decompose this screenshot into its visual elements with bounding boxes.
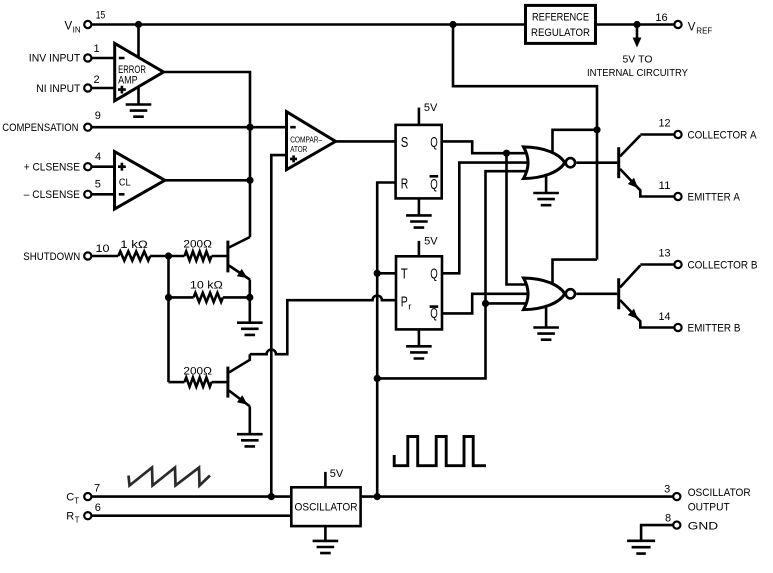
pin 11 terminal emitter A bbox=[674, 193, 681, 200]
junction shutdown node bbox=[165, 252, 172, 259]
svg-text:INV INPUT: INV INPUT bbox=[29, 53, 81, 65]
pin 6 terminal RT bbox=[84, 512, 91, 519]
wire VIN down to error amp bbox=[137, 25, 140, 58]
svg-text:COLLECTOR B: COLLECTOR B bbox=[688, 259, 758, 271]
svg-text:EMITTER A: EMITTER A bbox=[688, 191, 741, 203]
junction CL output bbox=[246, 177, 253, 184]
pin 10 terminal SHUTDOWN bbox=[84, 252, 91, 259]
wire NOR gate A output to transistor base bbox=[576, 161, 617, 164]
svg-text:13: 13 bbox=[659, 248, 671, 260]
svg-text:V: V bbox=[688, 21, 696, 33]
wire pin2 to error amp bbox=[91, 87, 115, 90]
svg-text:11: 11 bbox=[659, 180, 671, 192]
pin 7 terminal CT bbox=[84, 493, 91, 500]
wire regulator output to VREF bbox=[596, 23, 675, 26]
pin 8 terminal GND bbox=[673, 522, 680, 529]
svg-text:3: 3 bbox=[664, 483, 670, 495]
svg-text:OUTPUT: OUTPUT bbox=[688, 501, 730, 513]
svg-text:5V: 5V bbox=[330, 468, 344, 480]
wire CL output bbox=[165, 179, 250, 182]
transistor output B bbox=[619, 265, 675, 328]
svg-text:C: C bbox=[66, 492, 74, 504]
svg-text:OSCILLATOR: OSCILLATOR bbox=[688, 487, 751, 499]
svg-text:5V TO: 5V TO bbox=[623, 53, 653, 65]
pin 13 terminal collector B bbox=[674, 261, 681, 268]
transistor output A bbox=[619, 135, 675, 197]
wire pin1 to error amp bbox=[91, 57, 115, 60]
wire R input from oscillator bbox=[377, 183, 395, 497]
svg-text:Q: Q bbox=[430, 265, 438, 282]
junction Q to gate B branch bbox=[503, 150, 510, 157]
svg-text:8: 8 bbox=[665, 512, 671, 524]
wire T-FF Qbar to NOR gate B bbox=[442, 294, 529, 314]
op-amp error amp bbox=[115, 43, 164, 100]
resistor 10 kOhm bbox=[169, 296, 194, 299]
wire branch to NOR gate A top bbox=[553, 130, 598, 153]
op-amp CL current limit amp bbox=[115, 152, 165, 209]
power 5V T flip-flop bbox=[419, 235, 438, 256]
resistor 200 Ohm lower bbox=[169, 381, 185, 384]
svg-text:12: 12 bbox=[659, 118, 671, 130]
svg-text:COLLECTOR A: COLLECTOR A bbox=[688, 129, 758, 141]
pin 5 terminal -CL SENSE bbox=[84, 191, 91, 198]
svg-text:Q: Q bbox=[430, 134, 438, 151]
resistor 200 Ohm upper bbox=[185, 251, 212, 260]
wire oscillator blanking to both gates bbox=[377, 171, 527, 378]
pin 9 terminal COMPENSATION bbox=[84, 124, 91, 131]
pin 14 terminal emitter B bbox=[674, 324, 681, 331]
svg-text:7: 7 bbox=[94, 483, 100, 495]
ground Q1 emitter bbox=[237, 323, 263, 335]
wire error amp output bbox=[164, 72, 251, 237]
junction oscillator output bbox=[374, 493, 381, 500]
wire comparator output to S input bbox=[336, 140, 396, 143]
svg-text:9: 9 bbox=[95, 110, 101, 122]
flip-flop toggle T bbox=[396, 256, 442, 329]
label VIN bbox=[65, 21, 81, 35]
resistor 1 kOhm bbox=[91, 255, 118, 258]
junction error amp output / compensation bbox=[246, 124, 253, 131]
junction VIN to output gates branch bbox=[449, 21, 456, 28]
svg-text:REGULATOR: REGULATOR bbox=[531, 27, 590, 39]
reference regulator block bbox=[526, 5, 596, 43]
junction T input from oscillator bbox=[374, 270, 381, 277]
svg-text:5: 5 bbox=[95, 179, 101, 191]
wire S-R Q branch down to NOR gate B bbox=[507, 153, 528, 284]
waveform sawtooth ramp bbox=[129, 468, 211, 486]
svg-text:– CLSENSE: – CLSENSE bbox=[24, 189, 80, 201]
svg-text:V: V bbox=[65, 21, 73, 33]
wire comparator plus input from oscillator ramp bbox=[271, 155, 286, 497]
wire blanking into gate B bbox=[486, 302, 528, 305]
svg-text:15: 15 bbox=[96, 10, 106, 22]
power 5V S-R flip-flop bbox=[419, 102, 438, 125]
svg-text:6: 6 bbox=[95, 502, 101, 514]
svg-text:GND: GND bbox=[688, 521, 719, 533]
svg-text:4: 4 bbox=[95, 151, 101, 163]
svg-text:10 kΩ: 10 kΩ bbox=[190, 280, 223, 292]
svg-text:1 kΩ: 1 kΩ bbox=[120, 239, 148, 251]
wire shutdown node down bbox=[167, 256, 170, 382]
svg-text:1: 1 bbox=[93, 43, 99, 55]
op-amp comparator bbox=[287, 112, 336, 170]
junction 10k tap bbox=[165, 294, 172, 301]
svg-text:AMP: AMP bbox=[118, 74, 138, 86]
pin 12 terminal collector A bbox=[674, 131, 681, 138]
wire Q output to NOR gate A bbox=[442, 141, 527, 153]
ground S-R flip-flop bbox=[406, 198, 432, 227]
waveform square wave bbox=[394, 437, 486, 466]
wire Q1 emitter to ground bbox=[249, 280, 252, 323]
NOR gate A bbox=[524, 147, 576, 179]
svg-text:R: R bbox=[66, 511, 74, 523]
svg-text:T: T bbox=[74, 496, 79, 505]
svg-text:REF: REF bbox=[696, 27, 712, 36]
wire RT to oscillator bbox=[91, 514, 291, 517]
wire Q2 emitter to ground bbox=[249, 406, 252, 434]
pin 3 terminal OSCILLATOR OUTPUT bbox=[673, 493, 680, 500]
ground NOR gate B bbox=[533, 306, 559, 340]
wire NOR gate B output to transistor base bbox=[576, 292, 617, 295]
svg-text:INTERNAL CIRCUITRY: INTERNAL CIRCUITRY bbox=[587, 67, 688, 79]
transistor Q2 bbox=[228, 354, 250, 406]
power 5V oscillator bbox=[325, 468, 344, 487]
svg-text:+ CLSENSE: + CLSENSE bbox=[24, 162, 80, 174]
wire T-FF Q up to NOR gate A bbox=[442, 163, 529, 274]
junction blanking to gate B bbox=[482, 300, 489, 307]
svg-text:ATOR: ATOR bbox=[290, 145, 307, 154]
svg-text:R: R bbox=[401, 176, 409, 193]
svg-text:T: T bbox=[401, 265, 408, 282]
junction Q1 emitter / 10k bbox=[246, 294, 253, 301]
ground NOR gate A bbox=[533, 175, 559, 206]
junction gates supply branch A bbox=[593, 126, 600, 133]
ground T flip-flop bbox=[406, 329, 432, 358]
svg-text:OSCILLATOR: OSCILLATOR bbox=[295, 501, 358, 513]
pin 15 terminal bbox=[84, 21, 91, 28]
label 5V TO INTERNAL CIRCUITRY bbox=[587, 53, 688, 79]
pin 1 terminal INV INPUT bbox=[84, 54, 91, 61]
svg-text:S: S bbox=[401, 134, 409, 151]
ground Q2 emitter bbox=[237, 434, 263, 446]
svg-text:IN: IN bbox=[73, 26, 81, 35]
pin 16 terminal bbox=[674, 21, 681, 28]
svg-text:EMITTER B: EMITTER B bbox=[688, 322, 741, 334]
svg-text:NI INPUT: NI INPUT bbox=[36, 83, 80, 95]
wire branch to NOR gate B top bbox=[553, 260, 598, 284]
junction VIN to error amp supply bbox=[135, 21, 142, 28]
svg-text:r: r bbox=[408, 301, 411, 312]
junction oscillator blanking tap bbox=[374, 375, 381, 382]
svg-text:SHUTDOWN: SHUTDOWN bbox=[23, 251, 80, 263]
svg-text:Q: Q bbox=[430, 176, 438, 193]
wire VIN branch down and right to gates bbox=[453, 25, 597, 260]
svg-text:2: 2 bbox=[93, 74, 99, 86]
svg-text:200Ω: 200Ω bbox=[183, 366, 212, 378]
wire CT to oscillator bbox=[91, 495, 291, 498]
wire Q2 collector to T-FF preset with hops bbox=[250, 296, 396, 355]
svg-text:REFERENCE: REFERENCE bbox=[532, 11, 589, 23]
svg-text:10: 10 bbox=[96, 243, 110, 255]
wire VIN rail to reference regulator bbox=[91, 23, 525, 26]
svg-text:5V: 5V bbox=[424, 102, 438, 114]
label VREF bbox=[688, 21, 713, 35]
pin 2 terminal NI INPUT bbox=[84, 84, 91, 91]
svg-text:200Ω: 200Ω bbox=[183, 239, 212, 251]
wire T input bbox=[377, 272, 396, 275]
ground oscillator bbox=[313, 526, 339, 553]
svg-text:T: T bbox=[75, 516, 80, 525]
ground error amp bbox=[126, 88, 152, 117]
wire compensation to comparator bbox=[91, 126, 286, 129]
transistor Q1 bbox=[228, 237, 250, 280]
svg-text:CL: CL bbox=[119, 177, 131, 189]
junction ramp to comparator bbox=[268, 493, 275, 500]
svg-text:16: 16 bbox=[655, 12, 667, 24]
ground GND pin bbox=[627, 541, 655, 554]
arrow 5V to internal circuitry bbox=[633, 25, 642, 48]
flip-flop S-R latch bbox=[396, 125, 442, 198]
svg-text:COMPAR–: COMPAR– bbox=[290, 136, 322, 145]
svg-text:14: 14 bbox=[659, 311, 671, 323]
junction 5V internal branch bbox=[633, 21, 640, 28]
NOR gate B bbox=[524, 278, 576, 310]
svg-text:P: P bbox=[401, 293, 408, 310]
svg-text:COMPENSATION: COMPENSATION bbox=[2, 122, 78, 134]
oscillator block bbox=[291, 487, 360, 526]
wire oscillator output bbox=[361, 495, 674, 498]
wire pin 8 to ground bbox=[641, 525, 673, 541]
svg-text:5V: 5V bbox=[424, 235, 438, 247]
pin 4 terminal +CL SENSE bbox=[84, 163, 91, 170]
